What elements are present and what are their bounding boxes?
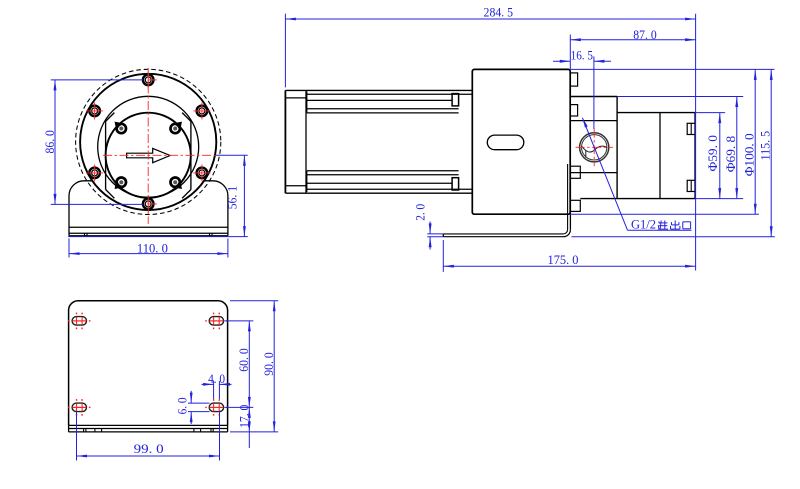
svg-text:G1/2: G1/2: [631, 217, 656, 231]
svg-text:16. 5: 16. 5: [571, 48, 593, 63]
svg-text:56. 1: 56. 1: [224, 186, 239, 209]
svg-text:86. 0: 86. 0: [42, 130, 57, 153]
svg-text:4. 0: 4. 0: [208, 371, 225, 386]
svg-text:Φ59. 0: Φ59. 0: [706, 135, 720, 172]
svg-text:99. 0: 99. 0: [134, 441, 164, 456]
svg-text:Φ69. 8: Φ69. 8: [724, 136, 738, 173]
svg-text:2. 0: 2. 0: [413, 204, 428, 221]
svg-text:87. 0: 87. 0: [633, 27, 656, 42]
svg-text:17. 0: 17. 0: [236, 405, 251, 428]
svg-text:175. 0: 175. 0: [548, 252, 579, 267]
svg-text:Φ100. 0: Φ100. 0: [742, 133, 756, 176]
svg-text:110. 0: 110. 0: [137, 241, 168, 256]
svg-text:60. 0: 60. 0: [236, 348, 251, 371]
svg-text:6. 0: 6. 0: [174, 397, 189, 414]
svg-text:115. 5: 115. 5: [757, 131, 772, 161]
svg-text:284. 5: 284. 5: [484, 5, 514, 20]
svg-text:90. 0: 90. 0: [261, 352, 276, 375]
